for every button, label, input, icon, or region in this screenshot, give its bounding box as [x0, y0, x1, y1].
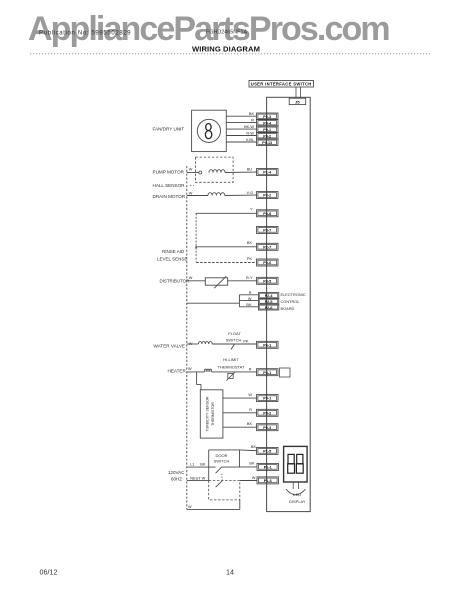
svg-text:W: W [189, 167, 193, 171]
svg-text:P5-2: P5-2 [263, 411, 271, 415]
svg-text:W: W [252, 476, 256, 480]
svg-text:P9-13: P9-13 [262, 141, 272, 145]
svg-text:P3-7: P3-7 [263, 229, 271, 233]
svg-text:P9-4: P9-4 [263, 122, 272, 126]
svg-text:BK: BK [251, 445, 257, 449]
svg-text:60HZ: 60HZ [171, 477, 182, 482]
svg-text:BK: BK [247, 422, 253, 426]
svg-text:06/12: 06/12 [40, 568, 58, 577]
svg-text:P3-5: P3-5 [263, 279, 271, 283]
svg-text:RINSE AID: RINSE AID [162, 249, 185, 254]
svg-text:LED: LED [293, 492, 301, 497]
svg-text:R: R [251, 118, 254, 122]
svg-text:V-BL: V-BL [246, 138, 254, 142]
svg-text:P1-5: P1-5 [263, 450, 271, 454]
svg-text:R-W: R-W [246, 131, 254, 135]
svg-text:TURBIDITY SENSOR: TURBIDITY SENSOR [206, 396, 210, 431]
svg-text:WIRING DIAGRAM: WIRING DIAGRAM [192, 44, 260, 53]
svg-text:NEUT W: NEUT W [190, 477, 205, 481]
svg-text:W: W [189, 276, 193, 280]
svg-text:Y: Y [250, 208, 253, 212]
svg-text:P2-6: P2-6 [265, 306, 273, 310]
svg-text:14: 14 [226, 568, 234, 577]
svg-text:P9-1: P9-1 [263, 128, 271, 132]
svg-text:DISTRIBUTOR: DISTRIBUTOR [160, 278, 190, 283]
svg-text:PUMP MOTOR: PUMP MOTOR [153, 170, 185, 175]
svg-text:ELECTRONIC: ELECTRONIC [281, 292, 306, 297]
svg-text:DISPLAY: DISPLAY [289, 499, 306, 504]
svg-text:W: W [189, 192, 193, 196]
svg-text:R-Y: R-Y [246, 276, 253, 280]
svg-text:P1-1: P1-1 [264, 466, 272, 470]
svg-text:BU: BU [247, 167, 253, 171]
svg-text:V-G: V-G [246, 191, 253, 195]
svg-text:P3-2: P3-2 [263, 194, 271, 198]
svg-text:FLOAT: FLOAT [228, 331, 241, 336]
svg-text:P9-2: P9-2 [263, 135, 271, 139]
svg-text:P6-1: P6-1 [263, 343, 271, 347]
svg-text:SWITCH: SWITCH [226, 338, 242, 343]
svg-text:P3-8: P3-8 [263, 212, 271, 216]
svg-text:BK: BK [249, 461, 255, 465]
svg-text:R: R [249, 368, 252, 372]
svg-text:R: R [249, 291, 252, 295]
svg-text:DOOR: DOOR [216, 453, 228, 458]
svg-text:PK: PK [247, 257, 253, 261]
svg-text:P2-7: P2-7 [263, 245, 271, 249]
svg-text:P9-3: P9-3 [263, 115, 271, 119]
svg-text:FGHD2465NF1A: FGHD2465NF1A [206, 30, 247, 36]
svg-text:HALL SENSOR: HALL SENSOR [153, 183, 186, 188]
svg-text:SWITCH: SWITCH [214, 458, 230, 463]
svg-text:W: W [248, 297, 252, 301]
svg-text:R: R [249, 408, 252, 412]
svg-text:THERMOSTAT: THERMOSTAT [218, 365, 246, 370]
svg-text:CONTROL: CONTROL [281, 299, 301, 304]
svg-text:Publication No: 5995502829: Publication No: 5995502829 [39, 31, 131, 37]
svg-text:W: W [248, 393, 252, 397]
svg-text:THERMISTOR: THERMISTOR [211, 402, 215, 426]
svg-text:W: W [188, 505, 192, 509]
svg-text:BK: BK [247, 241, 253, 245]
svg-text:P1-6: P1-6 [264, 479, 272, 483]
svg-text:PK: PK [243, 339, 249, 343]
svg-text:P5-1: P5-1 [263, 397, 271, 401]
svg-text:P2-4: P2-4 [265, 294, 274, 298]
svg-text:P1-4: P1-4 [263, 171, 272, 175]
svg-text:BK-W: BK-W [244, 125, 254, 129]
svg-text:USER INTERFACE SWITCH: USER INTERFACE SWITCH [251, 82, 312, 87]
svg-text:BOARD: BOARD [281, 306, 295, 311]
svg-text:BK: BK [200, 462, 206, 466]
svg-text:WATER VALVE: WATER VALVE [154, 343, 185, 348]
svg-text:L1: L1 [190, 462, 194, 466]
svg-text:HI-LIMIT: HI-LIMIT [223, 357, 239, 362]
svg-text:P2-5: P2-5 [265, 300, 273, 304]
svg-text:LEVEL SENSE: LEVEL SENSE [157, 256, 187, 261]
svg-text:P3-6: P3-6 [263, 261, 271, 265]
svg-text:DRAIN MOTOR: DRAIN MOTOR [153, 194, 186, 199]
svg-text:P4-1: P4-1 [263, 371, 271, 375]
svg-text:P5-3: P5-3 [263, 426, 271, 430]
svg-text:J5: J5 [295, 99, 300, 104]
svg-text:FAN/DRY UNIT: FAN/DRY UNIT [153, 127, 185, 132]
svg-text:BK: BK [249, 112, 255, 116]
svg-text:HEATER: HEATER [168, 369, 187, 374]
svg-text:120VAC: 120VAC [168, 470, 185, 475]
svg-text:W: W [188, 367, 192, 371]
svg-text:BK: BK [246, 303, 252, 307]
